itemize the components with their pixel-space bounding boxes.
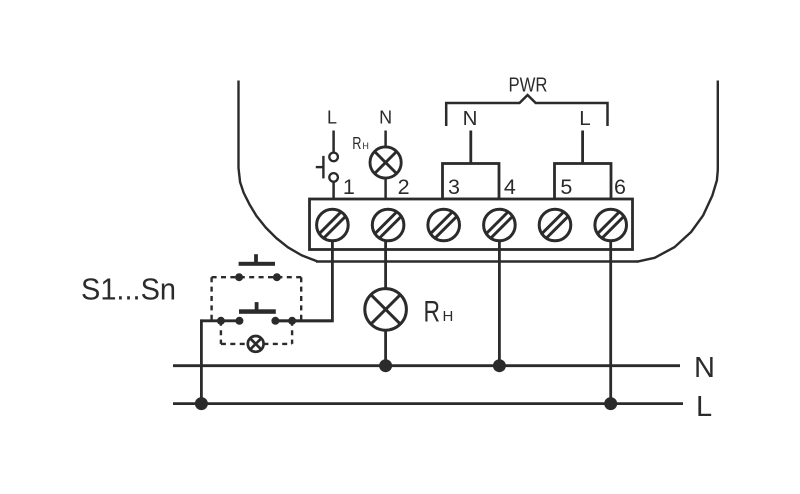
wire N to box 3-4: [469, 131, 472, 166]
svg-text:N: N: [694, 352, 715, 384]
wire terminal 1 down: [274, 240, 332, 321]
svg-text:H: H: [362, 141, 369, 151]
screw terminal 2: [372, 209, 404, 241]
push button Sn contact dot left: [235, 317, 243, 325]
svg-text:6: 6: [614, 175, 626, 199]
push button S1 contact dot right: [273, 273, 281, 281]
push button S1 actuator stem: [254, 254, 258, 262]
svg-text:2: 2: [398, 175, 410, 199]
push button Sn contact dot right: [271, 317, 279, 325]
button pilot lamp (small circle with X): [248, 336, 264, 352]
junction dot t4-N: [493, 359, 506, 372]
svg-text:1: 1: [343, 175, 355, 199]
svg-text:H: H: [443, 308, 454, 325]
connector box terminals 5-6: [555, 164, 612, 200]
L line: [173, 402, 683, 405]
svg-text:5: 5: [560, 175, 572, 199]
wire bottom right segment (Sn right contact to terminal 1 wire): [275, 319, 333, 322]
wire terminal 2 down to load lamp: [384, 240, 387, 288]
svg-text:R: R: [424, 296, 441, 329]
junction dot switch-L: [195, 397, 208, 410]
dashed lamp branch left horizontal: [221, 343, 248, 345]
wire switch branch down to L line: [200, 319, 203, 403]
push button S1 contact dot left: [235, 273, 243, 281]
switch S actuator tick: [316, 166, 324, 168]
wire L to box 5-6: [581, 131, 584, 166]
svg-text:N: N: [379, 107, 392, 127]
dashed lamp branch left vertical: [220, 321, 222, 344]
connector box terminals 3-4: [443, 164, 500, 200]
svg-text:S1...Sn: S1...Sn: [81, 272, 176, 307]
svg-text:R: R: [352, 133, 361, 153]
PWR bracket: [446, 95, 607, 126]
wire load lamp to N line: [384, 331, 387, 365]
wire terminal 4 down to N line: [498, 240, 501, 366]
device outline bottom edge: [316, 260, 638, 262]
junction dot lamp-N: [379, 359, 392, 372]
junction dot lamp branch right: [288, 317, 296, 325]
switch S actuator bar: [322, 156, 324, 179]
svg-text:4: 4: [504, 175, 516, 199]
svg-text:N: N: [463, 107, 478, 130]
switch S contact bottom circle: [329, 173, 338, 182]
wire pilot lamp to terminal 2: [384, 179, 387, 199]
wire terminal 6 down to L line: [609, 240, 612, 404]
dashed box left side: [210, 277, 212, 321]
switch S contact top circle: [329, 153, 338, 162]
junction dot lamp branch left: [217, 317, 225, 325]
pilot lamp (circle with X) at terminal 2: [370, 147, 401, 178]
push button S1 actuator bar: [239, 262, 275, 266]
screw terminal 3: [428, 209, 460, 241]
wire switch to terminal 1: [332, 182, 335, 199]
svg-text:3: 3: [448, 175, 460, 199]
junction dot t6-L: [604, 397, 617, 410]
screw terminal 4: [484, 209, 516, 241]
terminal block: [310, 199, 633, 250]
load lamp RH (circle with X): [365, 289, 407, 331]
dashed box right side: [300, 277, 302, 321]
svg-text:PWR: PWR: [509, 73, 548, 96]
screw terminal 5: [539, 209, 571, 241]
device outline right side: [637, 81, 718, 262]
push button Sn actuator stem: [255, 302, 259, 309]
wire from N to pilot lamp: [384, 131, 387, 148]
wire bottom left segment (to Sn left contact): [201, 319, 240, 322]
N line: [173, 364, 680, 367]
screw terminal 6: [595, 209, 627, 241]
dashed box top edge: [212, 276, 302, 278]
dashed lamp branch right horizontal: [263, 343, 292, 345]
device outline left side: [239, 81, 318, 262]
svg-text:L: L: [579, 107, 590, 130]
screw terminal 1: [317, 209, 349, 241]
wire from L to switch: [332, 131, 335, 153]
dashed lamp branch right vertical: [291, 321, 293, 344]
push button Sn actuator bar: [239, 309, 276, 314]
svg-text:L: L: [327, 108, 337, 128]
svg-text:L: L: [696, 391, 712, 423]
